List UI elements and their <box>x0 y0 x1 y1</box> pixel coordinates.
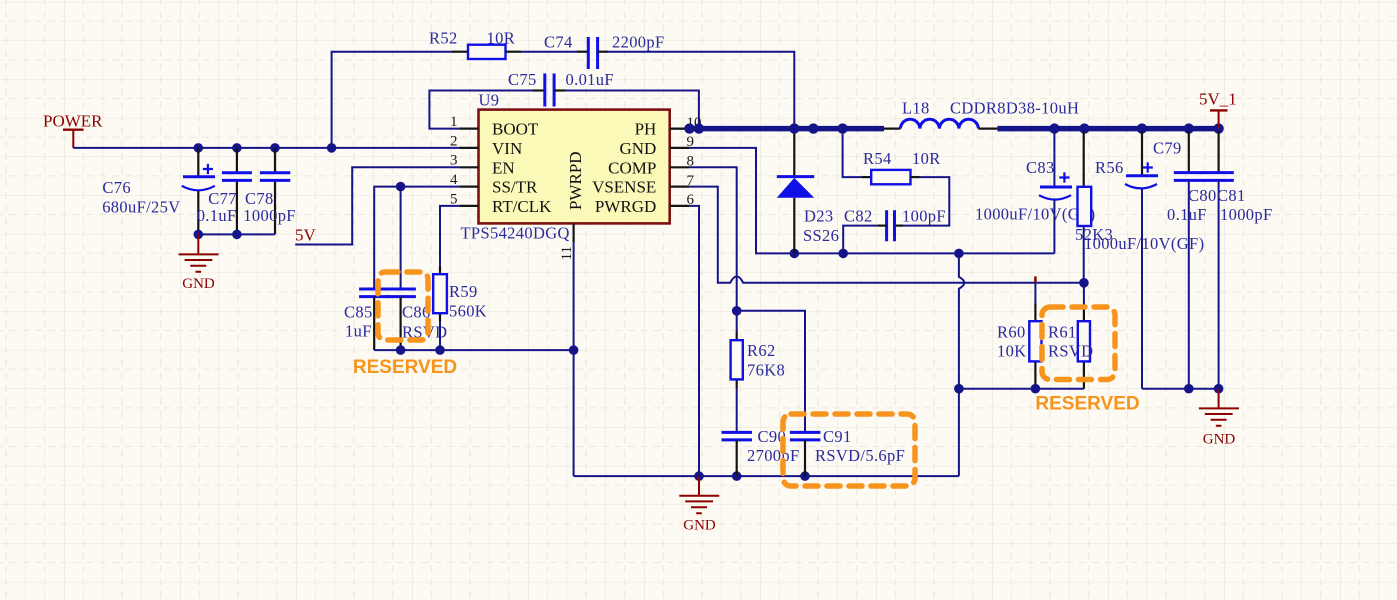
svg-text:BOOT: BOOT <box>492 120 539 139</box>
svg-text:R60: R60 <box>997 323 1026 342</box>
svg-text:5V: 5V <box>295 226 317 245</box>
svg-text:COMP: COMP <box>608 158 656 177</box>
node junction C77 <box>232 143 242 153</box>
pin 5 RT/CLK <box>459 205 478 207</box>
svg-text:GND: GND <box>619 139 656 158</box>
pin 3 EN <box>459 166 478 168</box>
svg-text:R54: R54 <box>863 149 892 168</box>
svg-text:C85: C85 <box>344 303 373 322</box>
svg-text:RSVD: RSVD <box>1048 342 1093 361</box>
pin 10 PH <box>670 128 685 130</box>
node junction R52 branch <box>327 143 337 153</box>
wire output ground rail <box>1142 388 1219 390</box>
ground GND (output) <box>1199 389 1239 448</box>
capacitor C80 <box>1167 131 1217 389</box>
pin 8 COMP <box>670 166 689 168</box>
svg-text:1uF: 1uF <box>345 322 372 341</box>
capacitor C83 <box>975 131 1095 253</box>
wire bottom ground rail <box>574 475 959 477</box>
wire POWER net horizontal <box>73 147 459 149</box>
node junction C76 <box>194 143 204 153</box>
capacitor C91 <box>790 427 905 476</box>
wire soft-start ground rail <box>374 349 573 351</box>
resistor R56 <box>1075 131 1124 244</box>
capacitor C81 <box>1203 131 1272 389</box>
resistor R60 <box>997 283 1042 389</box>
svg-text:RT/CLK: RT/CLK <box>492 197 552 216</box>
capacitor C82 <box>844 207 946 242</box>
wire R52 to C74 <box>521 51 577 53</box>
resistor R59 <box>433 266 487 322</box>
wire RT/CLK to R59 <box>440 206 459 266</box>
svg-text:2700pF: 2700pF <box>747 446 800 465</box>
svg-text:GND: GND <box>683 517 716 533</box>
wire PH bus thick left <box>670 128 685 130</box>
svg-text:EN: EN <box>492 158 515 177</box>
pin 4 SS/TR <box>459 186 478 188</box>
capacitor C76 <box>102 148 215 235</box>
svg-text:2200pF: 2200pF <box>612 33 665 52</box>
wire C82 to ground rail <box>843 226 878 254</box>
op-amp U9 TPS54240DGQ body <box>461 91 670 243</box>
resistor R54 <box>863 149 941 184</box>
svg-text:R59: R59 <box>449 282 478 301</box>
wire PWRGD net <box>689 206 699 476</box>
wire PH to R54 snubber <box>843 131 862 177</box>
svg-text:VIN: VIN <box>492 139 522 158</box>
capacitor C86 <box>386 289 448 350</box>
wire 5V_1 bus thick right <box>997 126 1221 132</box>
svg-text:76K8: 76K8 <box>747 360 785 379</box>
wire R54 to C82 <box>903 177 949 226</box>
svg-text:PWRPD: PWRPD <box>566 151 585 210</box>
pin 11 PWRPD pad <box>572 223 574 242</box>
diode D23 SS26 <box>777 131 839 253</box>
svg-text:D23: D23 <box>804 207 833 226</box>
svg-text:560K: 560K <box>449 302 487 321</box>
svg-text:C81: C81 <box>1217 186 1246 205</box>
svg-text:1000uF/10V(GF): 1000uF/10V(GF) <box>1084 234 1204 253</box>
capacitor C77 <box>197 148 252 235</box>
svg-text:CDDR8D38-10uH: CDDR8D38-10uH <box>950 99 1079 118</box>
svg-text:0.1uF: 0.1uF <box>1167 205 1207 224</box>
capacitor C85 <box>344 289 390 350</box>
svg-text:R62: R62 <box>747 341 776 360</box>
svg-text:10R: 10R <box>912 149 941 168</box>
svg-text:R52: R52 <box>429 28 458 47</box>
pin 1 BOOT <box>459 128 478 130</box>
pin 7 VSENSE <box>670 186 689 188</box>
wire feedback ground rail <box>959 388 1084 390</box>
svg-text:U9: U9 <box>479 91 500 110</box>
svg-text:5V_1: 5V_1 <box>1199 90 1237 109</box>
svg-text:10R: 10R <box>487 28 516 47</box>
svg-text:10K: 10K <box>997 342 1026 361</box>
svg-text:RESERVED: RESERVED <box>1035 394 1139 415</box>
svg-text:RESERVED: RESERVED <box>353 357 457 378</box>
ground GND (input) <box>179 234 219 291</box>
svg-text:0.01uF: 0.01uF <box>566 70 614 89</box>
wire GND pin 9 to ground rail <box>689 148 1054 254</box>
svg-text:C80: C80 <box>1188 186 1217 205</box>
wire input cap ground rail <box>198 233 275 235</box>
capacitor C90 <box>722 427 800 476</box>
svg-text:PH: PH <box>635 120 657 139</box>
inductor L18 <box>884 99 1079 129</box>
node junction gnd rail <box>194 230 204 240</box>
svg-text:RSVD/5.6pF: RSVD/5.6pF <box>815 446 905 465</box>
svg-text:TPS54240DGQ: TPS54240DGQ <box>461 224 570 243</box>
svg-text:C91: C91 <box>823 427 852 446</box>
svg-text:0.1uF: 0.1uF <box>197 206 237 225</box>
wire R52/C74 top branch <box>332 52 452 148</box>
capacitor C78 <box>243 148 296 235</box>
svg-text:C76: C76 <box>102 178 131 197</box>
svg-text:SS/TR: SS/TR <box>492 178 538 197</box>
capacitor C74 <box>544 33 665 70</box>
ground GND (center) <box>679 476 719 533</box>
svg-text:680uF/25V: 680uF/25V <box>102 197 180 216</box>
wire C74 to PH node <box>608 52 794 125</box>
svg-text:L18: L18 <box>902 99 930 118</box>
svg-text:C74: C74 <box>544 33 573 52</box>
wire EN to 5V <box>295 167 459 244</box>
power port 5V_1 <box>1199 90 1237 129</box>
svg-text:C75: C75 <box>508 70 537 89</box>
resistor R61 <box>1048 283 1093 389</box>
wire C75 to PH node <box>565 91 699 126</box>
svg-text:1: 1 <box>450 114 458 130</box>
svg-text:R61: R61 <box>1048 323 1077 342</box>
wire BOOT / C75 branch <box>429 91 533 129</box>
resistor R62 <box>731 311 785 388</box>
pin 6 PWRGD <box>670 205 689 207</box>
svg-text:1000pF: 1000pF <box>243 206 296 225</box>
svg-text:R56: R56 <box>1095 158 1124 177</box>
pin 2 VIN <box>459 147 478 149</box>
svg-text:GND: GND <box>1203 432 1236 448</box>
capacitor C75 <box>508 70 614 106</box>
svg-text:GND: GND <box>182 276 215 292</box>
wire PWRPD pad to ground rail <box>573 243 575 476</box>
svg-text:POWER: POWER <box>43 112 103 131</box>
wire gnd link vertical with hop <box>959 253 964 476</box>
svg-text:C79: C79 <box>1153 139 1182 158</box>
svg-text:1000pF: 1000pF <box>1220 205 1273 224</box>
node junction C78 <box>270 143 280 153</box>
wire COMP net <box>689 167 805 432</box>
reserved box R61 <box>1042 307 1115 380</box>
pin 9 GND <box>670 147 689 149</box>
svg-text:C82: C82 <box>844 207 873 226</box>
capacitor C79 <box>1084 131 1204 389</box>
svg-text:SS26: SS26 <box>803 226 839 245</box>
node directive tick <box>1034 276 1036 282</box>
svg-text:2: 2 <box>450 133 458 149</box>
wire VSENSE feedback net with hop <box>689 187 1084 283</box>
svg-text:PWRGD: PWRGD <box>595 197 656 216</box>
svg-text:VSENSE: VSENSE <box>592 178 656 197</box>
svg-text:C83: C83 <box>1026 158 1055 177</box>
resistor R52 <box>429 28 515 59</box>
wire SS/TR to C85/C86 <box>374 187 459 289</box>
svg-text:100pF: 100pF <box>902 207 946 226</box>
reserved box C91 <box>783 414 915 486</box>
reserved box C86 <box>378 272 428 340</box>
